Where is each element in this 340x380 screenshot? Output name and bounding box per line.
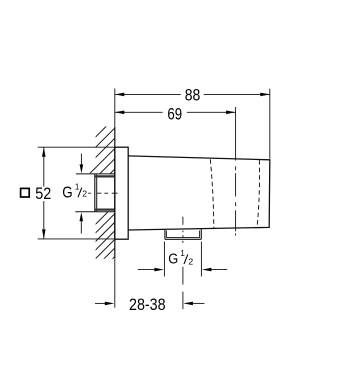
outlet centerline (182, 217, 184, 309)
svg-text:1: 1 (180, 249, 185, 258)
body outline (128, 156, 270, 230)
dimension 88 (115, 89, 270, 159)
svg-text:52: 52 (35, 185, 51, 203)
svg-text:G: G (168, 251, 178, 268)
bottom G1/2 arrows (138, 269, 156, 271)
nipple (wall connection thread) (94, 174, 96, 212)
svg-text:28-38: 28-38 (129, 296, 166, 314)
dimension square 52 (38, 147, 115, 239)
svg-text:88: 88 (185, 87, 201, 105)
dimension 69 (115, 107, 236, 161)
svg-text:2: 2 (82, 188, 87, 198)
wall hatching (90, 112, 121, 281)
wall face extension (bottom) (114, 258, 116, 308)
svg-text:1: 1 (75, 183, 80, 192)
flange (escutcheon) (115, 147, 128, 239)
svg-text:2: 2 (188, 256, 193, 266)
outlet (bottom G1/2) (165, 229, 201, 239)
dimension 28-38 (95, 302, 106, 304)
dashed holder contour lines (210, 159, 214, 228)
axis centerline through nipple (88, 192, 117, 194)
svg-text:G: G (62, 185, 72, 202)
outlet extension lines (163, 242, 165, 277)
svg-text:69: 69 (167, 105, 182, 123)
wall face line (114, 127, 116, 258)
nipple thread OD lines with G1/2 pointer arrows (76, 173, 115, 175)
holder centerline (dash-dot) (235, 166, 237, 235)
